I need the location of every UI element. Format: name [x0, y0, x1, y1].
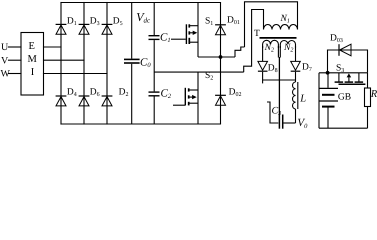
- svg-text:C0: C0: [140, 56, 151, 69]
- svg-text:D5: D5: [113, 16, 123, 27]
- svg-text:N1: N1: [280, 14, 290, 25]
- svg-text:E: E: [29, 41, 35, 52]
- svg-text:N2: N2: [283, 43, 293, 54]
- svg-text:I: I: [31, 67, 35, 78]
- svg-text:D2: D2: [119, 88, 129, 99]
- svg-text:S3: S3: [336, 63, 344, 74]
- svg-text:M: M: [28, 54, 38, 65]
- svg-text:N2: N2: [264, 43, 274, 54]
- svg-text:U: U: [1, 42, 9, 53]
- svg-text:GB: GB: [338, 92, 351, 102]
- svg-text:C1: C1: [160, 31, 171, 44]
- svg-text:L: L: [299, 94, 306, 105]
- svg-text:D6: D6: [90, 88, 100, 99]
- svg-text:S1: S1: [205, 16, 213, 27]
- svg-text:V: V: [1, 55, 9, 66]
- svg-text:Vdc: Vdc: [136, 10, 151, 25]
- svg-text:W: W: [1, 69, 11, 80]
- svg-text:D4: D4: [67, 88, 77, 99]
- svg-text:D7: D7: [302, 62, 312, 73]
- svg-text:D3: D3: [90, 16, 100, 27]
- svg-text:D8: D8: [268, 63, 278, 74]
- svg-text:D03: D03: [330, 34, 343, 45]
- svg-text:T: T: [254, 29, 260, 39]
- svg-text:C2: C2: [161, 88, 172, 101]
- svg-text:R: R: [370, 89, 377, 100]
- svg-text:D01: D01: [227, 16, 240, 27]
- svg-text:D02: D02: [229, 88, 242, 99]
- svg-text:D1: D1: [67, 16, 77, 27]
- svg-text:V0: V0: [297, 117, 308, 130]
